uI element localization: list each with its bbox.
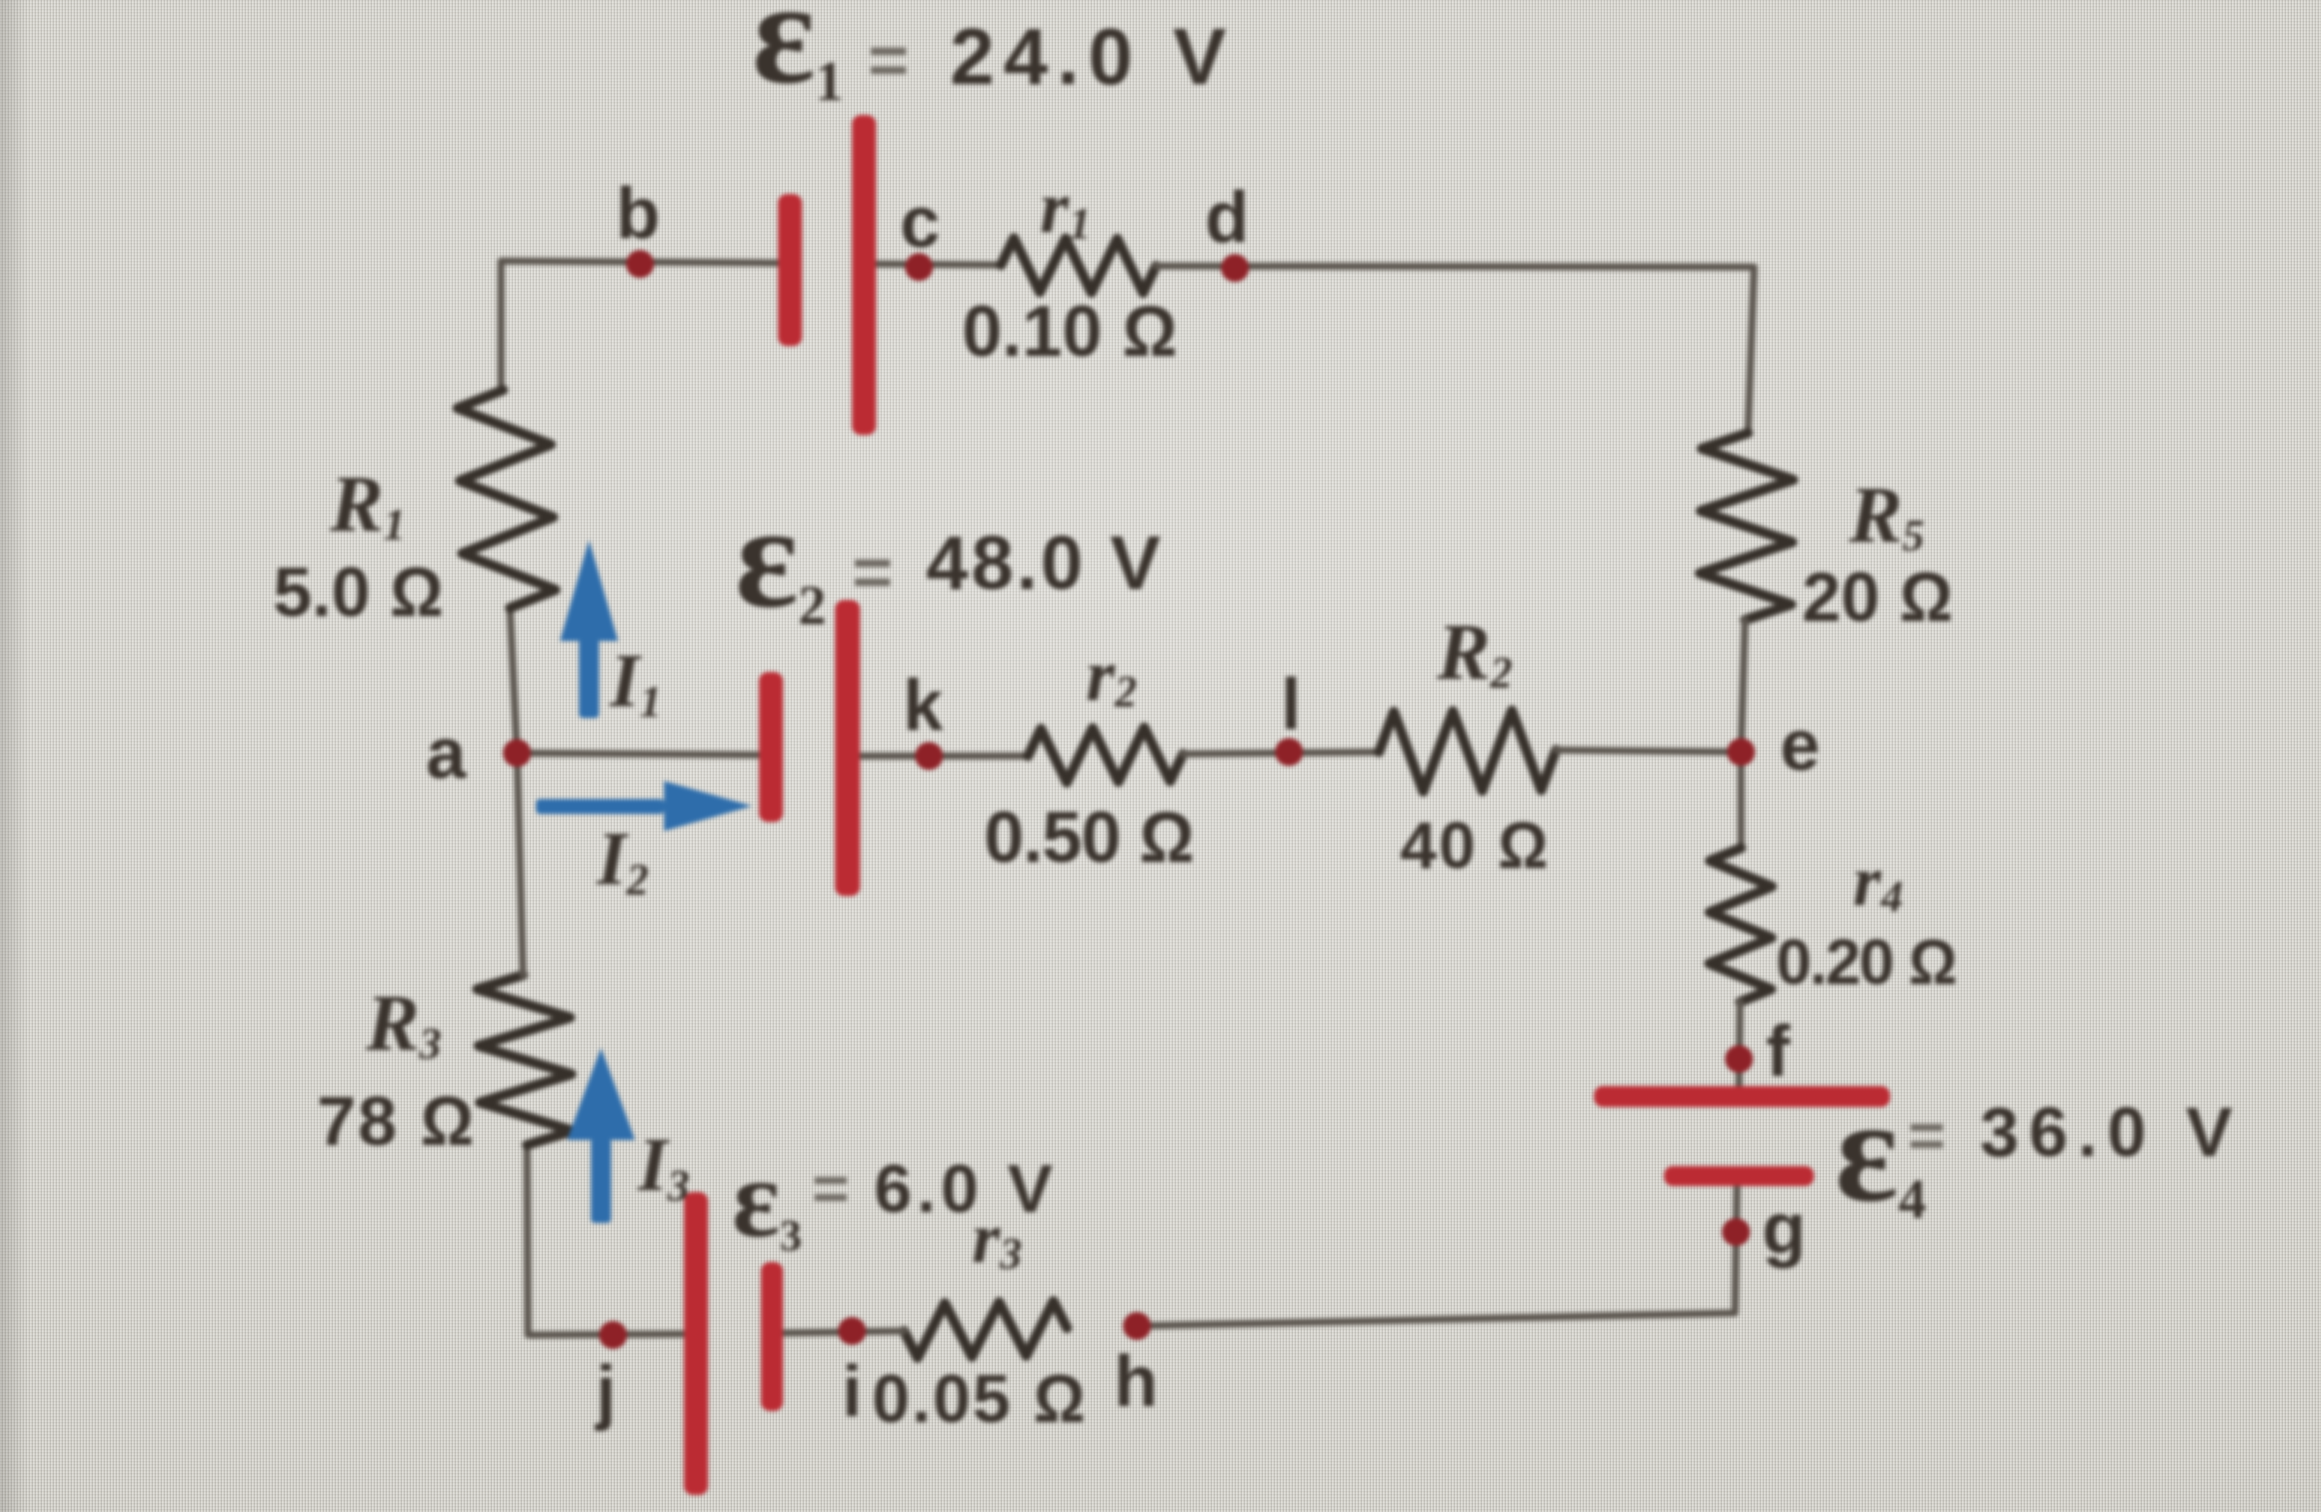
svg-text:78 Ω: 78 Ω <box>317 1082 476 1160</box>
svg-text:f: f <box>1766 1012 1791 1092</box>
battery E4 short plate <box>1664 1166 1814 1186</box>
svg-text:I2: I2 <box>596 817 649 904</box>
svg-text:a: a <box>426 714 467 794</box>
svg-text:ε1: ε1 <box>752 0 843 115</box>
node b dot <box>626 250 654 278</box>
wire node a to battery E2 (middle branch) <box>517 753 759 755</box>
resistor R5 <box>1700 433 1793 620</box>
svg-text:r2: r2 <box>1086 635 1137 717</box>
node a dot <box>503 739 531 767</box>
svg-text:=: = <box>852 533 893 611</box>
wire battery E4 to node g and bottom-right corner to node h <box>1137 1186 1737 1326</box>
svg-text:r1: r1 <box>1040 167 1091 249</box>
wire node a up to R1 <box>510 608 517 753</box>
battery E2 short plate <box>759 672 783 822</box>
svg-text:R3: R3 <box>365 980 441 1068</box>
wire top-left corner to battery E1 <box>501 261 778 390</box>
svg-text:=: = <box>1908 1099 1945 1171</box>
node f dot <box>1725 1045 1753 1073</box>
wire r4 to node f and battery E4 <box>1739 1002 1740 1086</box>
svg-text:40 Ω: 40 Ω <box>1400 808 1550 882</box>
svg-text:ε3: ε3 <box>732 1137 802 1261</box>
node d dot <box>1221 254 1249 282</box>
svg-text:ε2: ε2 <box>735 475 826 639</box>
resistor r1 <box>1001 238 1156 293</box>
svg-text:c: c <box>900 183 940 263</box>
svg-text:h: h <box>1114 1342 1158 1422</box>
node l dot <box>1275 738 1303 766</box>
svg-text:0.20 Ω: 0.20 Ω <box>1776 926 1956 998</box>
wire battery E3 to node j and bottom-left corner up to R3 <box>527 1145 684 1335</box>
svg-text:=: = <box>868 21 909 99</box>
svg-text:0.50 Ω: 0.50 Ω <box>984 798 1193 878</box>
svg-text:36.0 V: 36.0 V <box>1980 1093 2242 1171</box>
node c dot <box>905 253 933 281</box>
wire r1 via node d to top-right corner down to R5 <box>1156 266 1754 433</box>
svg-text:6.0 V: 6.0 V <box>874 1151 1058 1227</box>
battery E1 short plate <box>778 194 802 346</box>
svg-text:I1: I1 <box>609 639 662 726</box>
svg-text:I3: I3 <box>637 1123 690 1210</box>
current arrow I2 <box>536 781 752 831</box>
wire R5 to node e <box>1741 620 1745 752</box>
battery E3 short plate <box>761 1262 783 1411</box>
resistor R1 <box>458 390 556 608</box>
wire r3 to battery E3 <box>783 1331 904 1333</box>
node k dot <box>915 742 943 770</box>
resistor r4 <box>1709 848 1772 1002</box>
svg-text:0.05 Ω: 0.05 Ω <box>872 1361 1087 1437</box>
svg-text:j: j <box>594 1352 616 1432</box>
svg-text:k: k <box>903 666 944 746</box>
svg-text:=: = <box>812 1152 849 1224</box>
wire node e to r4 <box>1738 752 1745 848</box>
svg-text:0.10 Ω: 0.10 Ω <box>962 292 1177 372</box>
wire R3 up to node a <box>517 753 523 975</box>
svg-text:5.0 Ω: 5.0 Ω <box>273 553 444 631</box>
current arrow I1 <box>560 540 618 718</box>
battery E4 long plate <box>1594 1086 1890 1107</box>
svg-text:i: i <box>842 1352 862 1432</box>
battery E3 long plate <box>684 1192 708 1495</box>
node e dot <box>1727 738 1755 766</box>
svg-text:e: e <box>1780 706 1820 786</box>
svg-text:R2: R2 <box>1436 609 1512 697</box>
node j dot <box>599 1321 627 1349</box>
battery E2 long plate <box>835 600 860 896</box>
svg-text:g: g <box>1762 1189 1806 1269</box>
wire r2 via node l to R2 <box>1183 752 1379 754</box>
svg-text:48.0 V: 48.0 V <box>926 521 1164 606</box>
node h dot <box>1123 1312 1151 1340</box>
battery E1 long plate <box>852 115 876 435</box>
svg-text:R5: R5 <box>1848 472 1924 560</box>
resistor R3 <box>477 975 572 1145</box>
resistor R2 <box>1379 711 1556 792</box>
node g dot <box>1722 1218 1750 1246</box>
svg-text:r4: r4 <box>1853 841 1903 921</box>
svg-text:d: d <box>1205 178 1249 258</box>
resistor r2 <box>1028 728 1183 783</box>
resistor r3 <box>904 1301 1067 1358</box>
wire battery E2 to node k and r2 <box>860 753 1028 760</box>
wire R2 to node e <box>1556 750 1741 752</box>
node i dot <box>838 1317 866 1345</box>
svg-text:24.0 V: 24.0 V <box>950 12 1235 101</box>
wire battery E1 to r1 <box>876 264 1001 265</box>
svg-text:R1: R1 <box>329 461 405 549</box>
svg-text:l: l <box>1281 665 1301 745</box>
svg-text:20 Ω: 20 Ω <box>1802 558 1953 636</box>
svg-text:b: b <box>616 174 660 254</box>
current arrow I3 <box>567 1048 635 1223</box>
